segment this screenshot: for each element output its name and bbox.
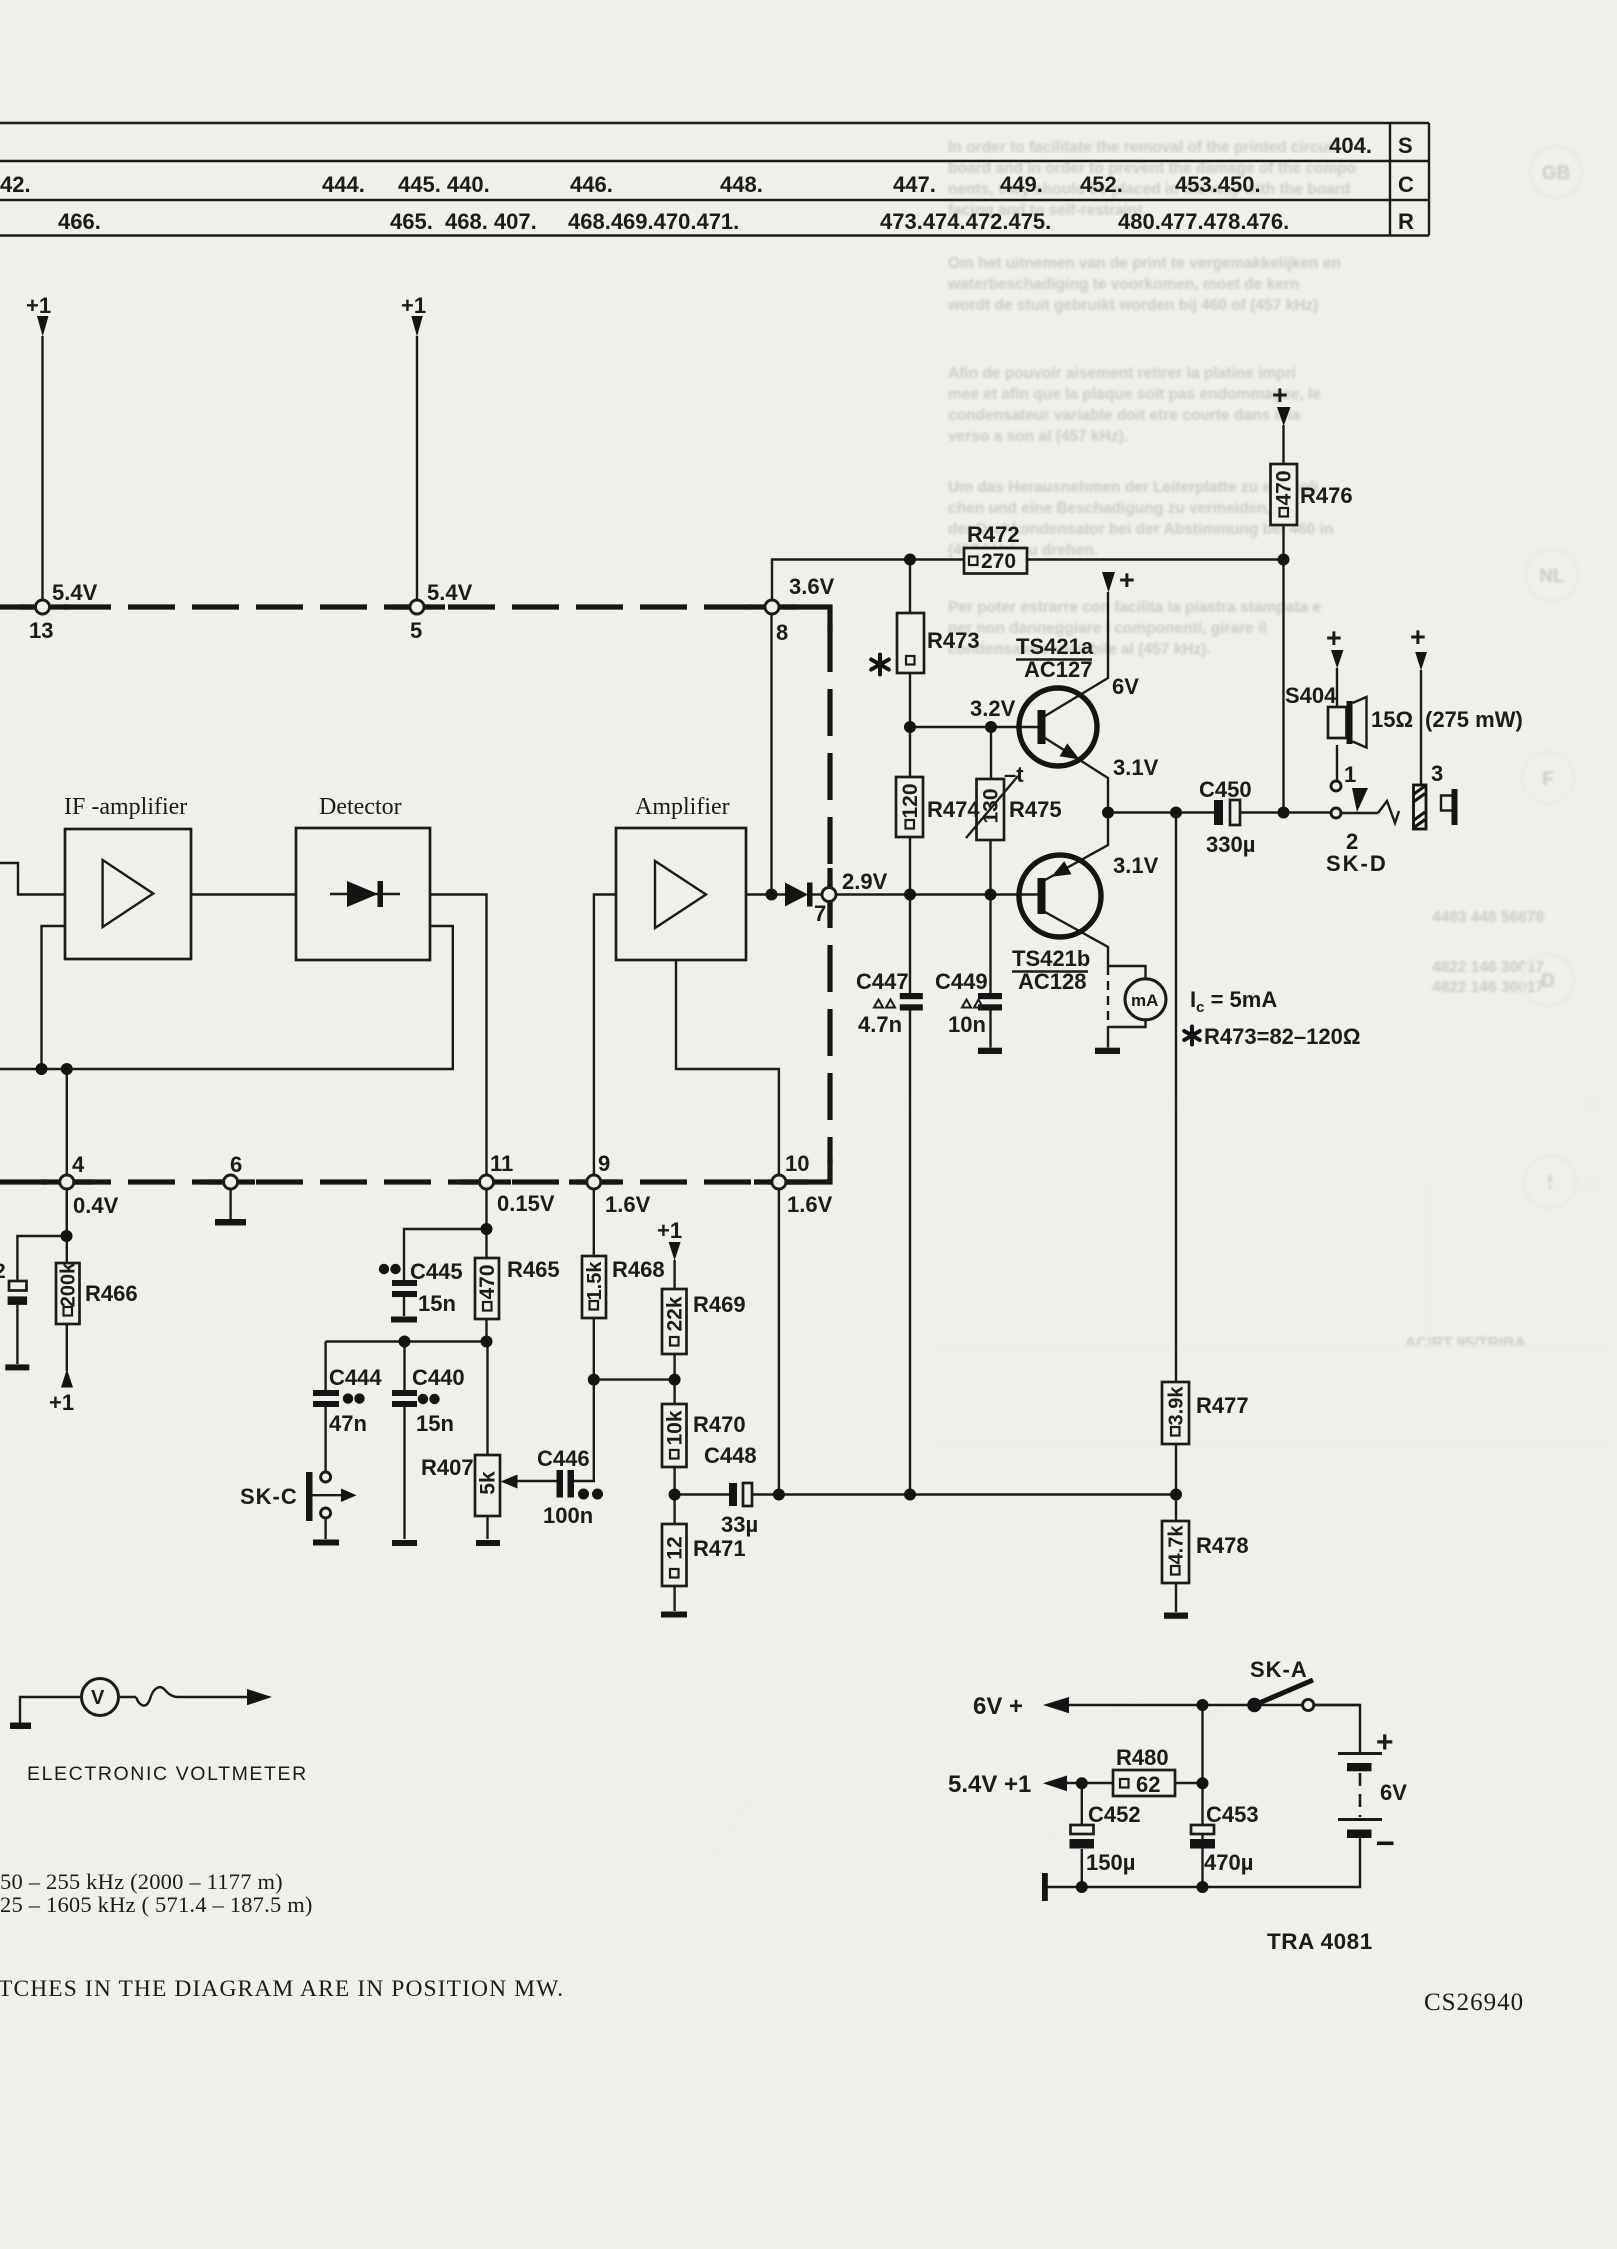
svg-text:TRA 4081: TRA 4081	[1267, 1929, 1373, 1954]
svg-text:+: +	[1326, 623, 1342, 653]
svg-text:R473=82–120Ω: R473=82–120Ω	[1204, 1024, 1361, 1049]
svg-text:C450: C450	[1199, 777, 1252, 802]
svg-text:–t: –t	[1004, 762, 1024, 787]
svg-text:R471: R471	[693, 1536, 746, 1561]
svg-text:1.6V: 1.6V	[787, 1192, 833, 1217]
svg-text:4: 4	[72, 1152, 85, 1177]
svg-text:480.477.478.476.: 480.477.478.476.	[1118, 209, 1289, 234]
svg-text:447.: 447.	[893, 172, 936, 197]
svg-text:4822 146 30017: 4822 146 30017	[1432, 979, 1544, 996]
svg-text:R469: R469	[693, 1292, 746, 1317]
svg-text:ELECTRONIC VOLTMETER: ELECTRONIC VOLTMETER	[27, 1763, 308, 1785]
svg-text:5.4V: 5.4V	[52, 580, 98, 605]
svg-text:448.: 448.	[720, 172, 763, 197]
svg-text:12: 12	[664, 1536, 687, 1559]
svg-text:444.: 444.	[322, 172, 365, 197]
svg-text:13: 13	[29, 618, 53, 643]
svg-text:10k: 10k	[664, 1410, 687, 1445]
svg-text:+1: +1	[26, 293, 51, 318]
svg-text:0.4V: 0.4V	[73, 1193, 119, 1218]
svg-text:1: 1	[1344, 762, 1356, 787]
svg-text:+: +	[1376, 1726, 1394, 1759]
svg-text:verso a son al (457 kHz).: verso a son al (457 kHz).	[948, 428, 1128, 445]
svg-text:3.2V: 3.2V	[970, 696, 1016, 721]
svg-text:C440: C440	[412, 1365, 465, 1390]
svg-text:mA: mA	[1131, 991, 1158, 1010]
svg-text:SK-C: SK-C	[240, 1484, 298, 1509]
svg-text:C452: C452	[1088, 1802, 1141, 1827]
svg-text:R470: R470	[693, 1412, 746, 1437]
svg-text:C444: C444	[329, 1365, 382, 1390]
svg-text:3.1V: 3.1V	[1113, 853, 1159, 878]
svg-text:8: 8	[776, 620, 788, 645]
svg-text:2.9V: 2.9V	[842, 869, 888, 894]
svg-text:6V: 6V	[1112, 674, 1139, 699]
svg-text:270: 270	[981, 550, 1016, 573]
svg-text:ACIRT 95/TRIBA: ACIRT 95/TRIBA	[1405, 1335, 1526, 1352]
svg-text:7: 7	[814, 901, 826, 926]
svg-text:25 – 1605 kHz ( 571.4 – 187.5: 25 – 1605 kHz ( 571.4 – 187.5 m)	[0, 1892, 313, 1917]
svg-text:R: R	[1398, 209, 1414, 234]
svg-text:+1: +1	[401, 293, 426, 318]
svg-text:C447: C447	[856, 969, 909, 994]
svg-text:S404: S404	[1285, 683, 1337, 708]
svg-text:11: 11	[490, 1151, 513, 1176]
svg-text:C448: C448	[704, 1443, 757, 1468]
svg-text:chen und eine Beschadigung zu: chen und eine Beschadigung zu vermeiden,…	[948, 500, 1293, 517]
svg-text:In order to facilitate the rem: In order to facilitate the removal of th…	[948, 139, 1337, 156]
svg-text:2: 2	[0, 1260, 6, 1283]
svg-text:6V: 6V	[1380, 1780, 1407, 1805]
svg-text:465.: 465.	[390, 209, 433, 234]
svg-text:R466: R466	[85, 1281, 138, 1306]
svg-text:R465: R465	[507, 1257, 560, 1282]
svg-text:C453: C453	[1206, 1802, 1259, 1827]
svg-text:Per poter estrarre con facilit: Per poter estrarre con facilita la piast…	[948, 599, 1321, 616]
svg-text:1.5k: 1.5k	[584, 1261, 606, 1301]
svg-text:R475: R475	[1009, 797, 1062, 822]
svg-text:R473: R473	[927, 628, 980, 653]
svg-text:C: C	[1398, 172, 1414, 197]
svg-text:150µ: 150µ	[1086, 1850, 1135, 1875]
svg-text:GB: GB	[1542, 163, 1571, 184]
svg-text:AC127: AC127	[1024, 657, 1092, 682]
svg-text:50 – 255 kHz (2000 – 1177: 50 – 255 kHz (2000 – 1177 m)	[0, 1869, 283, 1894]
svg-text:47n: 47n	[329, 1411, 367, 1436]
svg-text:4.7k: 4.7k	[1166, 1525, 1188, 1565]
svg-text:42.: 42.	[0, 172, 31, 197]
svg-text:D: D	[1541, 971, 1555, 992]
svg-text:C449: C449	[935, 969, 988, 994]
svg-text:470µ: 470µ	[1204, 1850, 1253, 1875]
svg-text:6: 6	[230, 1152, 242, 1177]
svg-text:15n: 15n	[418, 1291, 456, 1316]
svg-text:IF -amplifier: IF -amplifier	[64, 794, 187, 820]
svg-text:condensateur variable doit etr: condensateur variable doit etre courte d…	[948, 407, 1301, 424]
svg-text:C446: C446	[537, 1446, 590, 1471]
svg-text:+: +	[1272, 380, 1288, 410]
svg-text:330µ: 330µ	[1206, 832, 1255, 857]
svg-text:4822 146 30017: 4822 146 30017	[1432, 959, 1544, 976]
svg-text:+: +	[1410, 622, 1426, 652]
svg-text:SK-D: SK-D	[1326, 851, 1388, 876]
svg-text:Amplifier: Amplifier	[635, 794, 730, 820]
svg-text:R480: R480	[1116, 1745, 1169, 1770]
svg-text:V: V	[91, 1687, 105, 1709]
svg-text:NL: NL	[1539, 566, 1565, 587]
svg-text:3.9k: 3.9k	[1166, 1386, 1188, 1426]
svg-text:200k: 200k	[58, 1262, 80, 1307]
svg-text:waterbeschadiging te voorkomen: waterbeschadiging te voorkomen, moet de …	[947, 276, 1299, 293]
svg-text:mee et afin que la plaque soit: mee et afin que la plaque soit pas endom…	[948, 386, 1321, 403]
svg-text:Afin de pouvoir aisement retir: Afin de pouvoir aisement retirer la plat…	[948, 365, 1296, 382]
svg-text:1.6V: 1.6V	[605, 1192, 651, 1217]
svg-text:449.: 449.	[1000, 172, 1043, 197]
svg-text:3: 3	[1431, 761, 1443, 786]
svg-text:+1: +1	[657, 1218, 682, 1243]
svg-text:9: 9	[598, 1151, 610, 1176]
svg-text:5.4V: 5.4V	[427, 580, 473, 605]
svg-text:3.6V: 3.6V	[789, 574, 835, 599]
svg-text:446.: 446.	[570, 172, 613, 197]
svg-text:473.474.472.475.: 473.474.472.475.	[880, 209, 1051, 234]
svg-text:62: 62	[1136, 1772, 1160, 1797]
svg-text:0.15V: 0.15V	[497, 1191, 555, 1216]
svg-text:468.469.470.471.: 468.469.470.471.	[568, 209, 739, 234]
svg-text:TCHES IN THE DIAGRAM ARE IN PO: TCHES IN THE DIAGRAM ARE IN POSITION MW.	[0, 1976, 564, 2002]
svg-text:3.1V: 3.1V	[1113, 755, 1159, 780]
svg-text:466.: 466.	[58, 209, 101, 234]
svg-text:F: F	[1542, 769, 1554, 790]
svg-text:5: 5	[410, 618, 422, 643]
svg-text:15n: 15n	[416, 1411, 454, 1436]
svg-text:Om het uitnemen van de print t: Om het uitnemen van de print te vergemak…	[948, 255, 1341, 272]
svg-text:5k: 5k	[477, 1471, 500, 1495]
svg-text:+: +	[1119, 565, 1135, 595]
svg-text:22k: 22k	[664, 1296, 687, 1331]
svg-text:100n: 100n	[543, 1503, 593, 1528]
svg-text:S: S	[1398, 133, 1413, 158]
svg-text:R477: R477	[1196, 1393, 1249, 1418]
svg-text:SK-A: SK-A	[1250, 1657, 1308, 1682]
svg-text:TS421b: TS421b	[1012, 946, 1090, 971]
svg-text:445. 440.: 445. 440.	[398, 172, 490, 197]
svg-text:C445: C445	[410, 1259, 463, 1284]
svg-text:470: 470	[476, 1264, 499, 1299]
svg-text:130: 130	[980, 788, 1003, 823]
svg-text:470: 470	[1273, 470, 1296, 505]
svg-text:33µ: 33µ	[721, 1512, 758, 1537]
svg-text:10n: 10n	[948, 1012, 986, 1037]
svg-text:4483 448 56678: 4483 448 56678	[1432, 909, 1544, 926]
svg-text:5.4V +1: 5.4V +1	[948, 1771, 1031, 1798]
svg-text:+1: +1	[49, 1390, 74, 1415]
svg-text:120: 120	[899, 783, 922, 818]
svg-text:452.: 452.	[1080, 172, 1123, 197]
svg-text:6V +: 6V +	[973, 1693, 1023, 1720]
svg-text:(275 mW): (275 mW)	[1425, 707, 1523, 732]
svg-text:10: 10	[785, 1151, 809, 1176]
svg-text:AC128: AC128	[1018, 969, 1086, 994]
svg-text:Um das Herausnehmen der Leiter: Um das Herausnehmen der Leiterplatte zu …	[948, 479, 1318, 496]
svg-text:wordt de stuit gebruikt worden: wordt de stuit gebruikt worden bij 460 o…	[947, 297, 1318, 314]
svg-text:R474: R474	[927, 797, 980, 822]
svg-text:R478: R478	[1196, 1533, 1249, 1558]
svg-text:453.450.: 453.450.	[1175, 172, 1261, 197]
svg-text:R468: R468	[612, 1257, 665, 1282]
svg-text:R476: R476	[1300, 483, 1353, 508]
svg-text:R472: R472	[967, 522, 1020, 547]
svg-text:4.7n: 4.7n	[858, 1012, 902, 1037]
svg-text:CS26940: CS26940	[1424, 1989, 1524, 2016]
svg-text:15Ω: 15Ω	[1371, 707, 1413, 732]
svg-text:TS421a: TS421a	[1016, 634, 1094, 659]
svg-text:Detector: Detector	[319, 794, 402, 820]
svg-text:R407: R407	[421, 1455, 474, 1480]
svg-text:404.: 404.	[1329, 133, 1372, 158]
svg-text:468. 407.: 468. 407.	[445, 209, 537, 234]
